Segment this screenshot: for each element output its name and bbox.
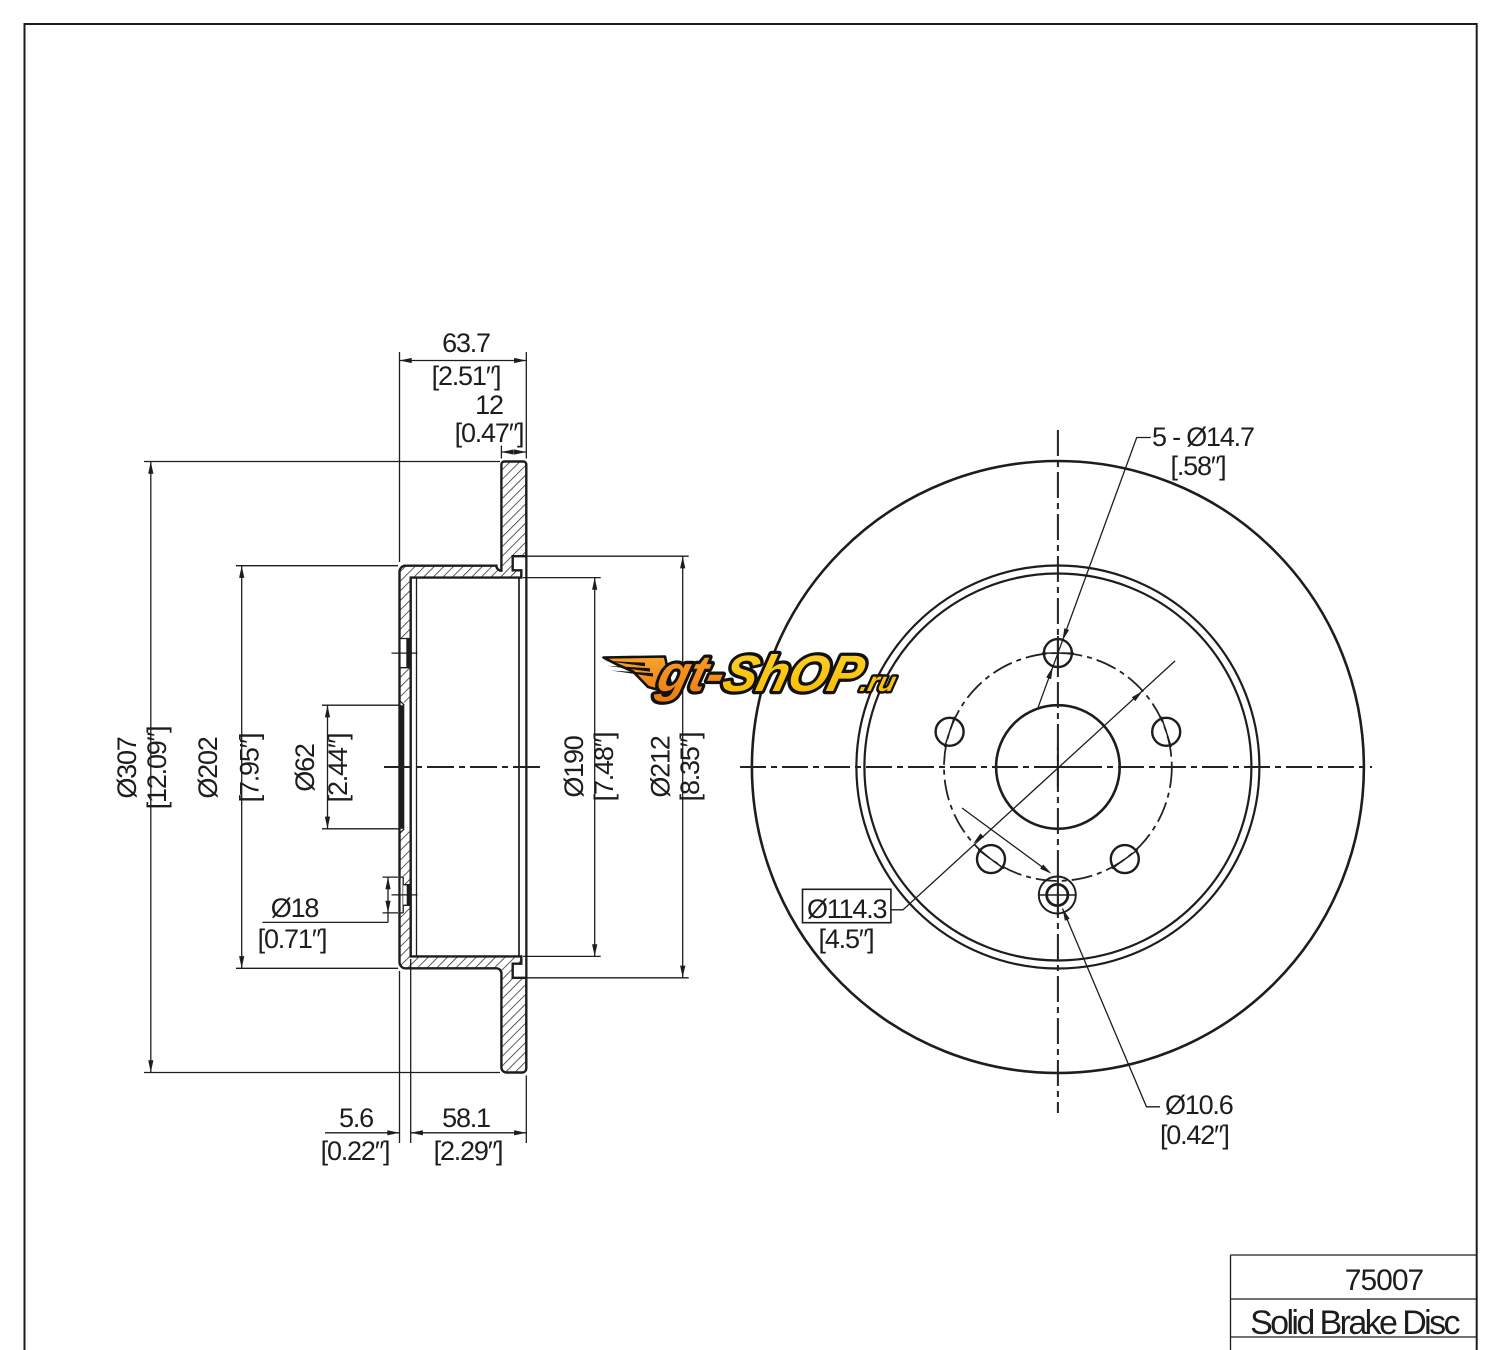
front view: friction inner circle O190 (864, 574, 1251, 961)
dimension O190 [7.48"] friction inner diameter (523, 578, 619, 957)
logo speed streaks (604, 661, 653, 677)
svg-text:5 - Ø14.7: 5 - Ø14.7 (1152, 422, 1254, 452)
svg-text:[12.09″]: [12.09″] (142, 727, 172, 810)
dimension O307 [12.09"] outer diameter (112, 462, 500, 1073)
front view: centre bore O62 (996, 705, 1120, 829)
bolt hole O14.7 at 90 deg (1042, 639, 1074, 667)
front view vertical centreline (1057, 430, 1059, 1113)
svg-text:gt-ShOP.ru: gt-ShOP.ru (651, 645, 905, 702)
logo speed wedge (604, 657, 674, 695)
dimension O18 [0.71"] set-screw spot face (258, 877, 398, 954)
svg-text:Ø307: Ø307 (112, 737, 142, 798)
part name Solid Brake Disc (1250, 1304, 1460, 1342)
svg-text:[7.48″]: [7.48″] (589, 733, 619, 802)
boxed dimension O114.3 [4.5"] bolt circle (803, 661, 1176, 954)
svg-text:[2.51″]: [2.51″] (432, 361, 501, 391)
front view horizontal centreline (740, 766, 1372, 768)
section interior edges: step, hat wall inner faces, flange inner face (411, 556, 527, 978)
svg-text:[4.5″]: [4.5″] (819, 924, 874, 954)
svg-text:5.6: 5.6 (339, 1103, 373, 1133)
title block (1231, 1255, 1477, 1350)
logo text (651, 645, 905, 702)
svg-text:[2.44″]: [2.44″] (323, 734, 353, 803)
svg-text:[0.42″]: [0.42″] (1160, 1120, 1229, 1150)
svg-text:58.1: 58.1 (442, 1103, 490, 1133)
svg-text:12: 12 (475, 390, 503, 420)
svg-text:Ø18: Ø18 (271, 893, 319, 923)
svg-text:Ø62: Ø62 (290, 744, 320, 792)
svg-text:Ø212: Ø212 (645, 736, 675, 797)
svg-text:Ø10.6: Ø10.6 (1165, 1090, 1233, 1120)
svg-text:[0.47″]: [0.47″] (455, 418, 524, 448)
dimension O212 [8.35"] step diameter (514, 556, 705, 978)
leader 5 - O14.7 [.58"] (1038, 422, 1254, 707)
svg-text:Solid Brake Disc: Solid Brake Disc (1250, 1304, 1460, 1342)
dimension 12 [0.47"] disc thickness (455, 390, 527, 459)
front view: outer circle O307 (752, 461, 1364, 1073)
bolt hole O14.7 at 162 deg (936, 717, 964, 747)
svg-text:[.58″]: [.58″] (1171, 451, 1226, 481)
dimension O202 [7.95"] hat diameter (193, 566, 398, 969)
svg-text:[8.35″]: [8.35″] (675, 733, 705, 802)
bolt hole cut (top, O14.7) (400, 639, 411, 668)
section view: disc material silhouette with hatching (400, 462, 527, 1073)
svg-text:75007: 75007 (1345, 1264, 1424, 1297)
bolt hole O14.7 at 234 deg (977, 845, 1005, 873)
bolt circle O114.3 (dash-dot) (944, 653, 1172, 881)
svg-text:[0.71″]: [0.71″] (258, 924, 327, 954)
section axis centreline (384, 766, 543, 768)
O18 / O10.6 hole cut (bottom) (400, 877, 411, 913)
dimension 5.6 [0.22"] flange thickness (321, 959, 411, 1166)
svg-text:Ø202: Ø202 (193, 737, 223, 798)
dimension O62 [2.44"] centre bore (290, 705, 400, 829)
svg-text:Ø190: Ø190 (559, 736, 589, 797)
rotor right face edge through cavity (525, 556, 527, 978)
extra leader to O18 spot face (962, 808, 1052, 874)
svg-text:Ø114.3: Ø114.3 (807, 894, 887, 924)
dimension 58.1 [2.29"] hat depth (411, 1076, 527, 1167)
section view: inner cavity (white) (411, 556, 527, 978)
svg-text:[0.22″]: [0.22″] (321, 1136, 390, 1166)
front view: hat circle O202 (856, 566, 1259, 969)
part number 75007 (1345, 1264, 1424, 1297)
set-screw hole O10.6 with O18 spot face (bottom) (1039, 877, 1076, 914)
svg-text:63.7: 63.7 (442, 328, 490, 358)
dimension 63.7 [2.51"] overall width (400, 328, 527, 562)
svg-text:[2.29″]: [2.29″] (434, 1136, 503, 1166)
cavity background edge lines (417, 578, 520, 957)
O18 hole centreline tick (392, 894, 418, 896)
leader O10.6 [0.42"] (1063, 909, 1233, 1151)
bolt hole centreline tick (392, 652, 418, 654)
bolt hole O14.7 at 306 deg (1111, 845, 1139, 873)
svg-text:[7.95″]: [7.95″] (235, 734, 265, 803)
bolt hole O14.7 at 18 deg (1152, 717, 1180, 747)
centre bore O62 cut (399, 700, 411, 834)
gt-shop.ru watermark logo (604, 645, 906, 702)
